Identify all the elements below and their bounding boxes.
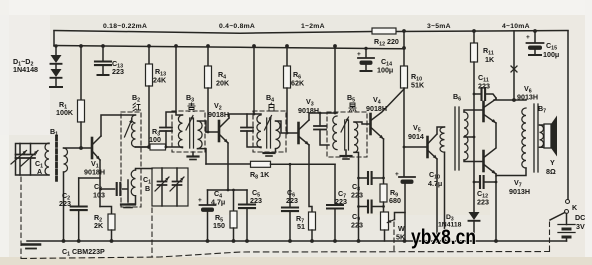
transformer B2 shield box (121, 112, 141, 207)
transistor V4 (369, 114, 372, 134)
svg-text:9018H: 9018H (366, 105, 387, 113)
resistor R12 (372, 28, 396, 34)
capacitor C14 electrolytic (365, 48, 367, 57)
resistor R7 (309, 212, 316, 230)
svg-text:1K: 1K (485, 56, 495, 64)
transformer B1 secondary winding (64, 148, 68, 172)
resistor R8 (251, 161, 271, 167)
wire V5 base (404, 146, 427, 148)
wire V5 emitter to ground (436, 159, 438, 241)
svg-text:223: 223 (477, 199, 489, 207)
resistor R6 (286, 46, 288, 66)
wire B6 center tap (464, 136, 474, 138)
resistor R3 (150, 144, 166, 150)
transformer B1 ferrite rod core (55, 136, 58, 183)
wire B2 primary bottom (136, 146, 151, 148)
transformer B7 primary winding (522, 108, 526, 168)
wire B1 secondary bottom to ground rail (63, 172, 65, 241)
transistor V3 (297, 123, 300, 143)
resistor R4 (207, 46, 209, 66)
transformer B3 primary winding (178, 115, 182, 148)
transformer B4 primary winding (257, 115, 261, 148)
svg-text:W: W (398, 225, 405, 233)
node ground rail junctions (62, 239, 66, 243)
capacitor C9 (359, 206, 367, 208)
svg-text:Y: Y (550, 159, 555, 167)
wire B3 secondary top to V2 base (198, 121, 207, 132)
transformer B6 primary winding (440, 127, 445, 152)
capacitor C10 electrolytic (399, 176, 415, 178)
svg-text:62K: 62K (291, 80, 305, 88)
svg-text:A: A (37, 168, 42, 176)
transformer B5 shield box (327, 112, 367, 157)
resistor R11 (473, 31, 475, 43)
capacitor C5 (246, 190, 248, 204)
node R1-base junction (79, 146, 83, 150)
capacitor C12 (474, 181, 479, 183)
resistor R9 (380, 184, 387, 202)
variable capacitor C1A section 1 (19, 144, 21, 155)
transformer B4 core (267, 118, 271, 148)
capacitor C15 electrolytic (534, 31, 536, 42)
capacitor C13 (102, 46, 104, 61)
svg-text:223: 223 (112, 68, 124, 76)
label B3 yellow (188, 103, 195, 112)
wire rail drop to B7 (513, 31, 515, 100)
wire V2 base (206, 131, 218, 133)
capacitor C2 (78, 178, 80, 206)
transistor V5 (426, 137, 429, 157)
wire rail drop to B3 (176, 46, 183, 115)
transistor V7 (482, 151, 485, 171)
svg-text:ybx8.cn: ybx8.cn (411, 226, 476, 249)
wire B4 secondary top to V3 base (276, 121, 299, 133)
wire emitter to C2 (79, 177, 100, 179)
wire B6 secondary top to V6 base (464, 110, 483, 112)
svg-text:8Ω: 8Ω (546, 168, 556, 176)
svg-text:223: 223 (59, 200, 71, 208)
wire battery branch x404 (403, 31, 405, 66)
ground stub under C3 node (121, 203, 135, 205)
svg-text:51K: 51K (411, 82, 425, 90)
wire B3 secondary bottom (198, 149, 207, 164)
wire V7 emitter to ground (495, 176, 497, 241)
wire V1 emitter down (99, 160, 101, 207)
switch K (566, 200, 570, 204)
wire B6 primary bottom to ground (444, 152, 446, 241)
svg-text:+: + (526, 34, 530, 41)
wire AGC line right (271, 163, 336, 165)
svg-text:+: + (198, 197, 202, 204)
wire +V top rail right of R12 (396, 31, 568, 32)
resistor R5 (233, 190, 235, 211)
svg-text:+: + (357, 51, 361, 58)
mechanical gang link dashes left (20, 177, 22, 258)
svg-text:4.7μ: 4.7μ (428, 180, 442, 188)
resistor R2 (100, 207, 112, 215)
transformer B7 core (534, 104, 538, 172)
variable capacitor C1A frame (16, 144, 50, 176)
ground stub under B3 (192, 152, 194, 156)
wire rail drop to B5 (334, 46, 336, 113)
wire emitter to C3 (100, 188, 115, 190)
ground stub under B4 (264, 152, 275, 154)
node rail x404 (402, 46, 406, 50)
wire speaker leads (540, 125, 545, 147)
capacitor C6 (289, 164, 291, 207)
transformer B7 secondary winding (540, 125, 544, 147)
mechanical link dashes K (549, 222, 551, 252)
svg-text:2K: 2K (94, 222, 104, 230)
transformer B2 primary winding (132, 115, 136, 147)
transformer B3 core (190, 118, 194, 148)
mechanical link dashes W (393, 222, 395, 251)
wire V3 collector to B5 (309, 113, 337, 120)
label B5 black (349, 103, 356, 111)
diode D1 (55, 46, 57, 55)
transformer B6 core (455, 107, 459, 170)
svg-text:+: + (395, 171, 399, 178)
capacitor resonance at B4 (246, 114, 248, 128)
svg-text:223: 223 (286, 197, 298, 205)
wire W wiper to C10 (395, 213, 406, 220)
svg-text:1N4148: 1N4148 (13, 66, 38, 74)
capacitor C8 (359, 177, 367, 179)
wire B5 secondary bottom chain (354, 152, 359, 241)
wire oscillator tap (136, 146, 151, 148)
diode D3 (469, 212, 480, 220)
wire ground bottom rail (27, 240, 567, 242)
svg-text:223: 223 (351, 222, 363, 230)
transformer B5 primary winding (333, 116, 337, 150)
node B2-R13 junction (147, 145, 151, 149)
svg-text:DC: DC (575, 214, 585, 222)
wire V6 emitter to V7 collector (495, 123, 497, 147)
capacitor C11 (474, 93, 480, 95)
wire V4 emitter down (383, 139, 385, 184)
svg-text:3V: 3V (576, 223, 585, 231)
svg-text:150: 150 (213, 222, 225, 230)
wire B4 secondary bottom (275, 149, 277, 152)
transformer B3 secondary winding (198, 121, 203, 149)
variable capacitor C1B section 2 (176, 168, 178, 181)
svg-text:223: 223 (335, 198, 347, 206)
wire B5 secondary top to V4 base (354, 122, 370, 124)
variable capacitor C1A section 2 (30, 144, 32, 155)
wire right edge supply (567, 31, 569, 199)
wire V2 emitter down (227, 143, 229, 190)
svg-text:4~10mA: 4~10mA (502, 23, 530, 30)
resistor R1 (80, 46, 82, 100)
transformer B5 core (345, 120, 349, 150)
wire decoupled supply rail (54, 46, 404, 49)
transformer B1 primary winding (45, 143, 49, 175)
variable capacitor C1B section 1 (161, 168, 163, 181)
svg-text:9013H: 9013H (509, 188, 530, 196)
capacitor padder at B3 (165, 131, 167, 147)
svg-text:1~2mA: 1~2mA (301, 23, 325, 30)
svg-text:223: 223 (351, 192, 363, 200)
wire emitter node (208, 189, 248, 191)
mechanical gang link dashes C1B (151, 208, 153, 257)
wire V6 collector to B7 (494, 98, 526, 100)
wire V3 emitter down (309, 145, 312, 212)
capacitor resonance at B5 (319, 113, 321, 126)
svg-text:9018H: 9018H (84, 169, 105, 177)
transformer B6 secondary winding (464, 112, 468, 160)
svg-text:K: K (572, 204, 578, 212)
transformer B4 secondary winding (276, 121, 281, 149)
svg-text:100: 100 (149, 136, 161, 144)
wire +V top rail left of R12 (54, 31, 372, 34)
capacitor C4 electrolytic (207, 190, 209, 204)
svg-text:51: 51 (297, 223, 305, 231)
wire B6 secondary bottom to V7 base (464, 160, 483, 162)
svg-text:24K: 24K (153, 77, 167, 85)
mechanical gang dashed line (21, 252, 550, 259)
svg-text:0.18~0.22mA: 0.18~0.22mA (103, 23, 147, 30)
label B2 red (133, 103, 141, 111)
transformer B5 secondary winding (354, 122, 358, 152)
diode D2 (55, 65, 57, 69)
capacitor C3 (117, 183, 121, 195)
wire D2 cathode stub (55, 79, 57, 87)
svg-text:0.4~0.8mA: 0.4~0.8mA (219, 23, 255, 30)
svg-text:680: 680 (389, 197, 401, 205)
svg-text:4.7μ: 4.7μ (211, 199, 225, 207)
svg-text:223: 223 (250, 197, 262, 205)
ground symbol (22, 243, 40, 246)
speaker Y (544, 124, 551, 148)
transformer B3 shield box (172, 111, 205, 152)
wire V1 base (64, 147, 93, 149)
wire AGC line (206, 163, 251, 165)
label B4 white (269, 103, 274, 111)
wire B2 secondary bottom to ground (128, 196, 136, 204)
svg-text:9018H: 9018H (208, 111, 229, 119)
wire top-left corner drop (53, 31, 55, 46)
resistor R13 (148, 46, 150, 64)
svg-text:223: 223 (478, 83, 490, 91)
test point cross (511, 66, 517, 72)
svg-text:9014: 9014 (408, 133, 424, 141)
svg-text:3~5mA: 3~5mA (427, 23, 451, 30)
transistor V1 (91, 138, 94, 158)
svg-text:20K: 20K (216, 80, 230, 88)
svg-text:100K: 100K (56, 109, 74, 117)
node rail junctions (79, 44, 83, 48)
transformer B2 secondary winding (131, 170, 135, 196)
svg-text:100μ: 100μ (377, 67, 393, 75)
svg-text:100μ: 100μ (543, 51, 559, 59)
svg-text:B: B (145, 185, 150, 193)
ground stub under B5 (345, 150, 347, 155)
wire rail drop to B4 (253, 46, 255, 114)
transistor V6 (482, 102, 485, 121)
transistor V2 (218, 121, 221, 141)
variable capacitor C1B frame (152, 168, 188, 206)
wire V7 emitter to B7 bottom (496, 168, 526, 176)
svg-text:103: 103 (93, 192, 105, 200)
capacitor C7 (334, 164, 336, 204)
potentiometer W volume (381, 212, 389, 230)
wire V1 collector to B2 (101, 115, 136, 136)
transformer B4 shield box (253, 111, 286, 152)
resistor R10 (401, 66, 408, 88)
battery GB 3V (566, 214, 568, 225)
wire V2 collector to B4 (229, 114, 261, 118)
